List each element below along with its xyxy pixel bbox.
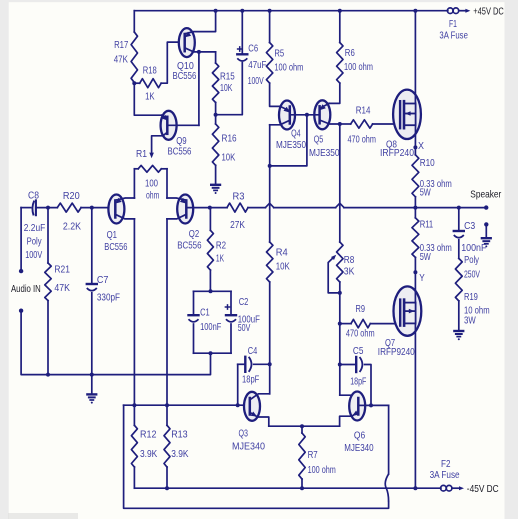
svg-text:470 ohm: 470 ohm: [346, 328, 375, 340]
svg-text:100V: 100V: [25, 249, 42, 261]
svg-text:R19: R19: [464, 291, 478, 303]
node dot R2/box: [209, 289, 213, 293]
arrow Q9 base into R1: [149, 153, 154, 159]
svg-text:2.2K: 2.2K: [63, 221, 81, 233]
svg-text:R4: R4: [276, 246, 288, 258]
transistor Q2 BC556: [177, 195, 193, 224]
svg-text:IRFP9240: IRFP9240: [378, 346, 415, 358]
resistor R5: [266, 43, 272, 84]
svg-text:Poly: Poly: [464, 254, 479, 266]
svg-text:3W: 3W: [464, 314, 476, 326]
ground (R16): [211, 184, 220, 186]
svg-text:R17: R17: [114, 39, 128, 51]
svg-text:C7: C7: [97, 274, 109, 286]
resistor R13: [164, 425, 170, 467]
node dot rail/R5: [268, 9, 272, 13]
svg-text:10K: 10K: [276, 261, 290, 273]
wire output line right: [344, 207, 486, 209]
svg-text:18pF: 18pF: [242, 374, 259, 386]
svg-text:Poly: Poly: [27, 236, 43, 248]
capacitor C4: [244, 357, 246, 372]
mosfet Q8 IRFP240: [393, 90, 421, 139]
wire R11 to Y: [414, 257, 416, 272]
resistor R1: [138, 165, 161, 172]
node dot base link: [305, 113, 309, 117]
wire C5 left lead: [340, 364, 356, 366]
node dot C5/Q6 collector: [369, 403, 373, 407]
svg-text:R11: R11: [420, 219, 434, 231]
node dot R15/R16/C6: [214, 113, 218, 117]
wire Q1 emitter to R1: [133, 169, 135, 198]
resistor R16: [212, 124, 218, 165]
fuse F1: [447, 8, 453, 14]
node dot R7/-45: [300, 486, 304, 490]
wire output to C3: [458, 208, 460, 231]
wire C4 right lead: [254, 363, 270, 365]
node dot X: [413, 145, 417, 149]
svg-text:C5: C5: [353, 345, 364, 357]
wire hop over -45 rail: [385, 474, 388, 502]
ground (R19): [454, 330, 463, 332]
node dot R9 tap: [338, 322, 342, 326]
wire R20 to Q1 base: [81, 207, 115, 209]
svg-text:10K: 10K: [222, 151, 236, 163]
svg-text:R8: R8: [344, 254, 355, 266]
resistor R11: [412, 218, 419, 258]
wire emitter link: [269, 425, 340, 427]
terminal dot audio-in return: [19, 309, 23, 313]
wire Q8 drain to rail: [414, 11, 416, 104]
resistor R10: [412, 155, 419, 197]
wire R21 top lead: [47, 208, 49, 263]
wire Q4/Q5 base link: [290, 114, 320, 116]
svg-text:Audio IN: Audio IN: [11, 283, 41, 295]
svg-text:IRFP240: IRFP240: [380, 147, 414, 159]
wire R15 to junction: [215, 103, 217, 115]
svg-text:47K: 47K: [114, 53, 128, 65]
svg-text:ohm: ohm: [146, 190, 159, 202]
resistor R20: [57, 203, 81, 212]
wire C1/C2 box bottom: [194, 352, 232, 354]
wire C1 top lead: [193, 291, 195, 315]
node dot Q4 loop / R4 branch: [268, 164, 272, 168]
wire R14 to Q8 gate: [373, 123, 401, 125]
svg-text:Q2: Q2: [189, 228, 200, 240]
wire R12 to -45 rail: [133, 467, 135, 488]
wire input line: [21, 207, 31, 209]
transistor Q5 MJE350: [314, 100, 330, 129]
node dot C4/R4: [268, 362, 272, 366]
svg-text:47uF: 47uF: [248, 59, 266, 71]
svg-text:R7: R7: [308, 449, 318, 461]
svg-text:100 ohm: 100 ohm: [308, 464, 336, 476]
wire Q2 collector to R13: [166, 219, 168, 405]
node dot rail/C6: [240, 9, 244, 13]
wire Q6 collector: [365, 404, 389, 406]
svg-text:R5: R5: [274, 48, 284, 60]
wire C1/C2 box top: [194, 290, 232, 292]
node dot C5 left: [338, 363, 342, 367]
node dot R2/R3: [208, 206, 212, 210]
wire R12 top lead: [133, 405, 135, 425]
mosfet Q7 IRFP9240: [394, 286, 422, 335]
node dot C7 bottom: [90, 373, 94, 377]
resistor R6: [337, 43, 343, 84]
wire Q2 emitter to R1: [166, 169, 168, 198]
wire C4 branch riser: [237, 364, 239, 405]
capacitor C5: [355, 357, 357, 372]
node dot R21 bottom: [46, 373, 50, 377]
wire audio return to ground line: [21, 311, 210, 375]
svg-text:BC556: BC556: [104, 241, 127, 253]
svg-text:100nF: 100nF: [461, 242, 486, 254]
wire C7 top lead: [91, 208, 93, 284]
transistor Q1 BC556: [108, 195, 124, 224]
svg-text:3.9K: 3.9K: [171, 448, 188, 460]
svg-text:330pF: 330pF: [97, 292, 120, 304]
svg-text:BC556: BC556: [173, 70, 197, 82]
wire audio-in top terminal: [20, 208, 22, 272]
svg-text:C8: C8: [28, 189, 39, 201]
svg-text:3.9K: 3.9K: [140, 448, 157, 460]
capacitor C3: [454, 230, 464, 232]
node dot R13/-45: [165, 486, 169, 490]
wire R10 to output: [414, 197, 416, 208]
resistor R17: [131, 32, 137, 83]
svg-text:R6: R6: [345, 47, 355, 59]
wire output line mid1: [248, 207, 265, 209]
wire Q5 collector branch down: [339, 124, 341, 242]
node dot output/R10-R11: [413, 206, 417, 210]
svg-text:5W: 5W: [420, 251, 431, 263]
wiper of preset R8: [328, 257, 340, 293]
svg-text:R2: R2: [216, 240, 226, 252]
svg-text:100 ohm: 100 ohm: [344, 61, 373, 73]
wire R19 to ground: [458, 301, 460, 331]
node dot R7 top: [300, 424, 304, 428]
node dot R17/R18: [132, 81, 136, 85]
wire feedback drop: [388, 405, 390, 474]
resistor R7: [299, 433, 305, 479]
wire R5 to Q4 emitter: [270, 83, 281, 106]
svg-text:MJE340: MJE340: [344, 442, 374, 454]
wire Q10 collector to R15: [215, 52, 217, 63]
terminal dot audio-in hot: [19, 269, 23, 273]
node dot C4 branch: [236, 403, 240, 407]
svg-text:Q6: Q6: [354, 429, 365, 441]
svg-text:MJE340: MJE340: [232, 441, 265, 453]
node dot Q10 collector / Q9 collector: [197, 50, 201, 54]
wire R18 left lead: [134, 82, 139, 84]
terminal dot speaker: [484, 205, 488, 209]
wire C1 bottom lead: [193, 324, 195, 353]
wire R1 left lead: [134, 168, 138, 170]
wire Q2 base to node: [186, 207, 210, 209]
wire X to R10: [414, 147, 416, 154]
svg-text:R21: R21: [54, 264, 70, 276]
svg-text:Q5: Q5: [314, 134, 324, 146]
ground (speaker return): [482, 237, 491, 239]
wire R18 to Q10 base: [161, 42, 185, 83]
svg-text:47K: 47K: [54, 282, 70, 294]
wire Q4 collector loop: [269, 125, 271, 166]
wire Y to Q7 source: [414, 272, 416, 302]
wire C7 bottom lead: [91, 293, 93, 375]
resistor R4: [267, 242, 273, 282]
svg-text:BC556: BC556: [177, 240, 201, 252]
wire speaker return to ground: [485, 224, 487, 237]
svg-text:Q4: Q4: [291, 128, 301, 140]
fuse F2: [441, 485, 447, 491]
node dot R13/Q2 collector: [165, 403, 169, 407]
svg-text:R15: R15: [220, 70, 235, 82]
node dot C7 tap: [90, 206, 94, 210]
svg-text:Y: Y: [419, 272, 425, 284]
svg-text:R12: R12: [140, 428, 157, 440]
wire R7 to -45 rail: [301, 479, 303, 488]
wire R17 bottom to Q9 emitter: [134, 83, 162, 116]
wire R4 to C4 node: [269, 282, 271, 364]
wire junction to R16: [215, 115, 217, 124]
svg-text:100: 100: [145, 178, 158, 190]
wire R13 to -45 rail: [166, 467, 168, 488]
wire base line y405: [124, 404, 250, 406]
transistor Q9 BC556: [161, 111, 177, 140]
svg-text:R10: R10: [420, 157, 435, 169]
wire C3 to R19: [458, 240, 460, 259]
wire R14 left lead: [340, 123, 351, 125]
svg-text:10K: 10K: [220, 82, 232, 94]
svg-text:C1: C1: [200, 307, 210, 319]
svg-text:3A Fuse: 3A Fuse: [430, 469, 460, 481]
svg-text:100V: 100V: [248, 75, 264, 87]
wire C5 right lead: [365, 365, 371, 406]
svg-text:R13: R13: [171, 428, 188, 440]
capacitor C2: [226, 314, 236, 316]
node dot Q7/-45: [413, 486, 417, 490]
wire Q8 source to X: [414, 125, 416, 147]
svg-text:R20: R20: [63, 190, 80, 202]
svg-text:X: X: [418, 140, 424, 152]
resistor R15: [212, 63, 218, 103]
svg-text:27K: 27K: [230, 219, 245, 231]
wire rail to C6: [241, 11, 243, 54]
svg-text:-45V DC: -45V DC: [467, 483, 499, 495]
wire C6 to R15/R16 junction: [216, 63, 243, 115]
wire output line left: [210, 207, 227, 209]
node dot R21 tap: [46, 206, 50, 210]
resistor R8: [337, 242, 343, 282]
svg-text:R9: R9: [356, 303, 366, 315]
wire rail to R5: [269, 11, 271, 43]
svg-text:+45V DC: +45V DC: [473, 6, 504, 18]
svg-text:R16: R16: [222, 132, 237, 144]
terminal dot speaker return: [484, 222, 488, 226]
svg-text:Q3: Q3: [239, 428, 249, 440]
node dot R8 wiper: [338, 291, 342, 295]
wire R8 below: [339, 282, 341, 395]
capacitor C6: [237, 53, 247, 55]
svg-text:BC556: BC556: [168, 145, 192, 157]
wire R6 to Q5 emitter: [329, 83, 340, 103]
wire hop over R8 branch: [336, 203, 344, 207]
svg-text:3K: 3K: [344, 266, 355, 278]
wire ground stub (input): [91, 375, 93, 394]
node dot output/C3: [457, 206, 461, 210]
node dot rail/R6: [338, 9, 342, 13]
svg-text:250V: 250V: [464, 269, 480, 281]
transistor Q6 MJE340: [349, 392, 365, 421]
wire rail to R6: [339, 11, 341, 43]
svg-text:100nF: 100nF: [200, 321, 221, 333]
svg-text:C6: C6: [248, 42, 258, 54]
capacitor C1: [189, 314, 199, 316]
resistor R19: [455, 258, 462, 301]
svg-text:MJE350: MJE350: [309, 147, 340, 159]
svg-text:R14: R14: [356, 104, 371, 116]
svg-text:C3: C3: [464, 220, 475, 232]
resistor R2: [207, 230, 213, 270]
wire Q6 base riser: [340, 395, 359, 399]
svg-text:C4: C4: [248, 345, 258, 357]
wire C2 top lead: [230, 291, 232, 315]
svg-text:R3: R3: [233, 190, 245, 202]
svg-text:5W: 5W: [420, 187, 431, 199]
svg-text:R1: R1: [136, 148, 147, 160]
wire R13 top lead: [166, 405, 168, 425]
wire down to Q3 collector: [269, 364, 271, 394]
svg-text:18pF: 18pF: [350, 376, 366, 388]
svg-text:2.2uF: 2.2uF: [24, 222, 46, 234]
node dot Q5 collector/R14: [338, 122, 342, 126]
transistor Q10 BC556: [179, 28, 195, 57]
node dot Y: [413, 270, 417, 274]
wire R2 top lead: [209, 208, 211, 231]
wire C4 left lead: [238, 363, 246, 365]
transistor Q3 MJE340: [244, 392, 260, 421]
ground (input): [87, 393, 96, 395]
wire Q7 drain to -45 rail: [414, 323, 416, 488]
wire -45V rail: [134, 487, 441, 489]
svg-text:3A Fuse: 3A Fuse: [439, 30, 468, 42]
wire feedback bottom line: [124, 405, 389, 508]
svg-text:50V: 50V: [238, 322, 251, 334]
node dot rail/Q10 emitter: [214, 9, 218, 13]
wire Q9 collector riser: [198, 52, 200, 125]
wire +45V top rail: [134, 10, 448, 12]
transistor Q4 MJE350: [279, 101, 295, 130]
resistor R9: [351, 319, 370, 327]
resistor R12: [131, 425, 137, 467]
svg-text:1K: 1K: [216, 252, 224, 264]
resistor R21: [45, 263, 51, 301]
resistor R14: [351, 120, 373, 128]
wire R2 bottom lead: [209, 270, 211, 291]
svg-text:Q1: Q1: [107, 229, 118, 241]
wire R21 bottom lead: [47, 301, 49, 375]
resistor R18: [140, 79, 162, 88]
wire hop over R4 branch: [265, 203, 273, 207]
wire output to R11: [414, 208, 416, 218]
wire R9 to Q7 gate: [370, 323, 400, 325]
svg-text:F1: F1: [449, 18, 457, 30]
wire R7 top lead: [301, 426, 303, 433]
svg-text:100 ohm: 100 ohm: [274, 62, 303, 74]
svg-text:C2: C2: [239, 296, 249, 308]
wire R16 to ground: [215, 165, 217, 184]
svg-text:1K: 1K: [145, 91, 155, 103]
resistor R3: [227, 203, 248, 212]
capacitor C8: [32, 201, 34, 216]
wire Q1 collector to R12: [133, 219, 135, 405]
wire R4 branch: [269, 166, 271, 242]
svg-text:470 ohm: 470 ohm: [348, 134, 377, 146]
node dot rail/Q8 drain: [413, 9, 417, 13]
node dot R12/Q1 collector: [132, 403, 136, 407]
node dot box bottom: [209, 351, 213, 355]
svg-text:Speaker: Speaker: [470, 189, 501, 201]
wire C2 bottom lead: [230, 324, 232, 353]
wire R9 left lead: [340, 323, 351, 325]
wire Q4 diode link: [270, 115, 307, 166]
wire R1 right lead: [161, 168, 167, 170]
svg-text:MJE350: MJE350: [276, 139, 306, 151]
wire C8 to R20: [36, 207, 58, 209]
wire output line mid2: [274, 207, 336, 209]
svg-text:R18: R18: [143, 64, 157, 76]
wire rail to R17: [133, 11, 135, 32]
capacitor C7: [87, 283, 97, 285]
